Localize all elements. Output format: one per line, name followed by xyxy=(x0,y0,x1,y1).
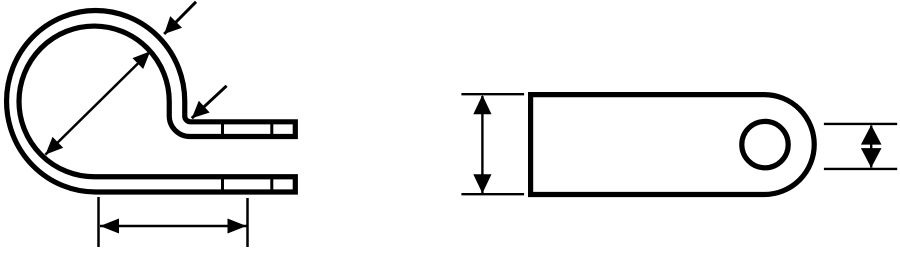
inner diameter arrowhead lower-left xyxy=(45,137,63,155)
mounting hole xyxy=(742,121,788,167)
bottom dimension arrowhead right xyxy=(228,219,247,234)
hole edge line upper strip right xyxy=(270,120,273,138)
hole edge line upper strip left xyxy=(221,120,224,138)
inner diameter arrowhead upper-right xyxy=(133,51,151,69)
hole dimension arrowhead down xyxy=(861,148,882,168)
width dimension extension line bottom xyxy=(461,193,524,195)
width dimension shaft xyxy=(481,96,483,193)
inner diameter dimension shaft (diagonal) xyxy=(45,51,150,154)
bottom dimension arrowhead left xyxy=(100,219,119,234)
hole dimension extension line top xyxy=(824,123,897,125)
cable clamp side view: band outline (loop with flat tails) xyxy=(7,11,296,192)
hole edge line lower strip left xyxy=(221,175,224,193)
width dimension arrowhead bottom xyxy=(473,174,491,193)
hole dimension arrowhead up xyxy=(861,125,882,145)
width dimension extension line top xyxy=(461,93,524,95)
hole dimension shaft xyxy=(870,126,872,168)
bottom dimension shaft xyxy=(100,225,247,228)
hole edge line lower strip right xyxy=(270,175,273,193)
hole dimension extension line bottom xyxy=(824,168,897,170)
width dimension arrowhead top xyxy=(473,95,491,114)
bottom dimension extension line left xyxy=(97,197,100,247)
thickness leader arrow inner corner head xyxy=(192,101,210,118)
thickness leader arrow top head xyxy=(164,16,182,34)
thickness leader arrow inner corner shaft xyxy=(192,86,227,118)
bottom dimension extension line right xyxy=(246,198,249,247)
thickness leader arrow top shaft xyxy=(164,2,196,34)
cable clamp top view: flat tab outline with rounded end xyxy=(531,95,815,195)
